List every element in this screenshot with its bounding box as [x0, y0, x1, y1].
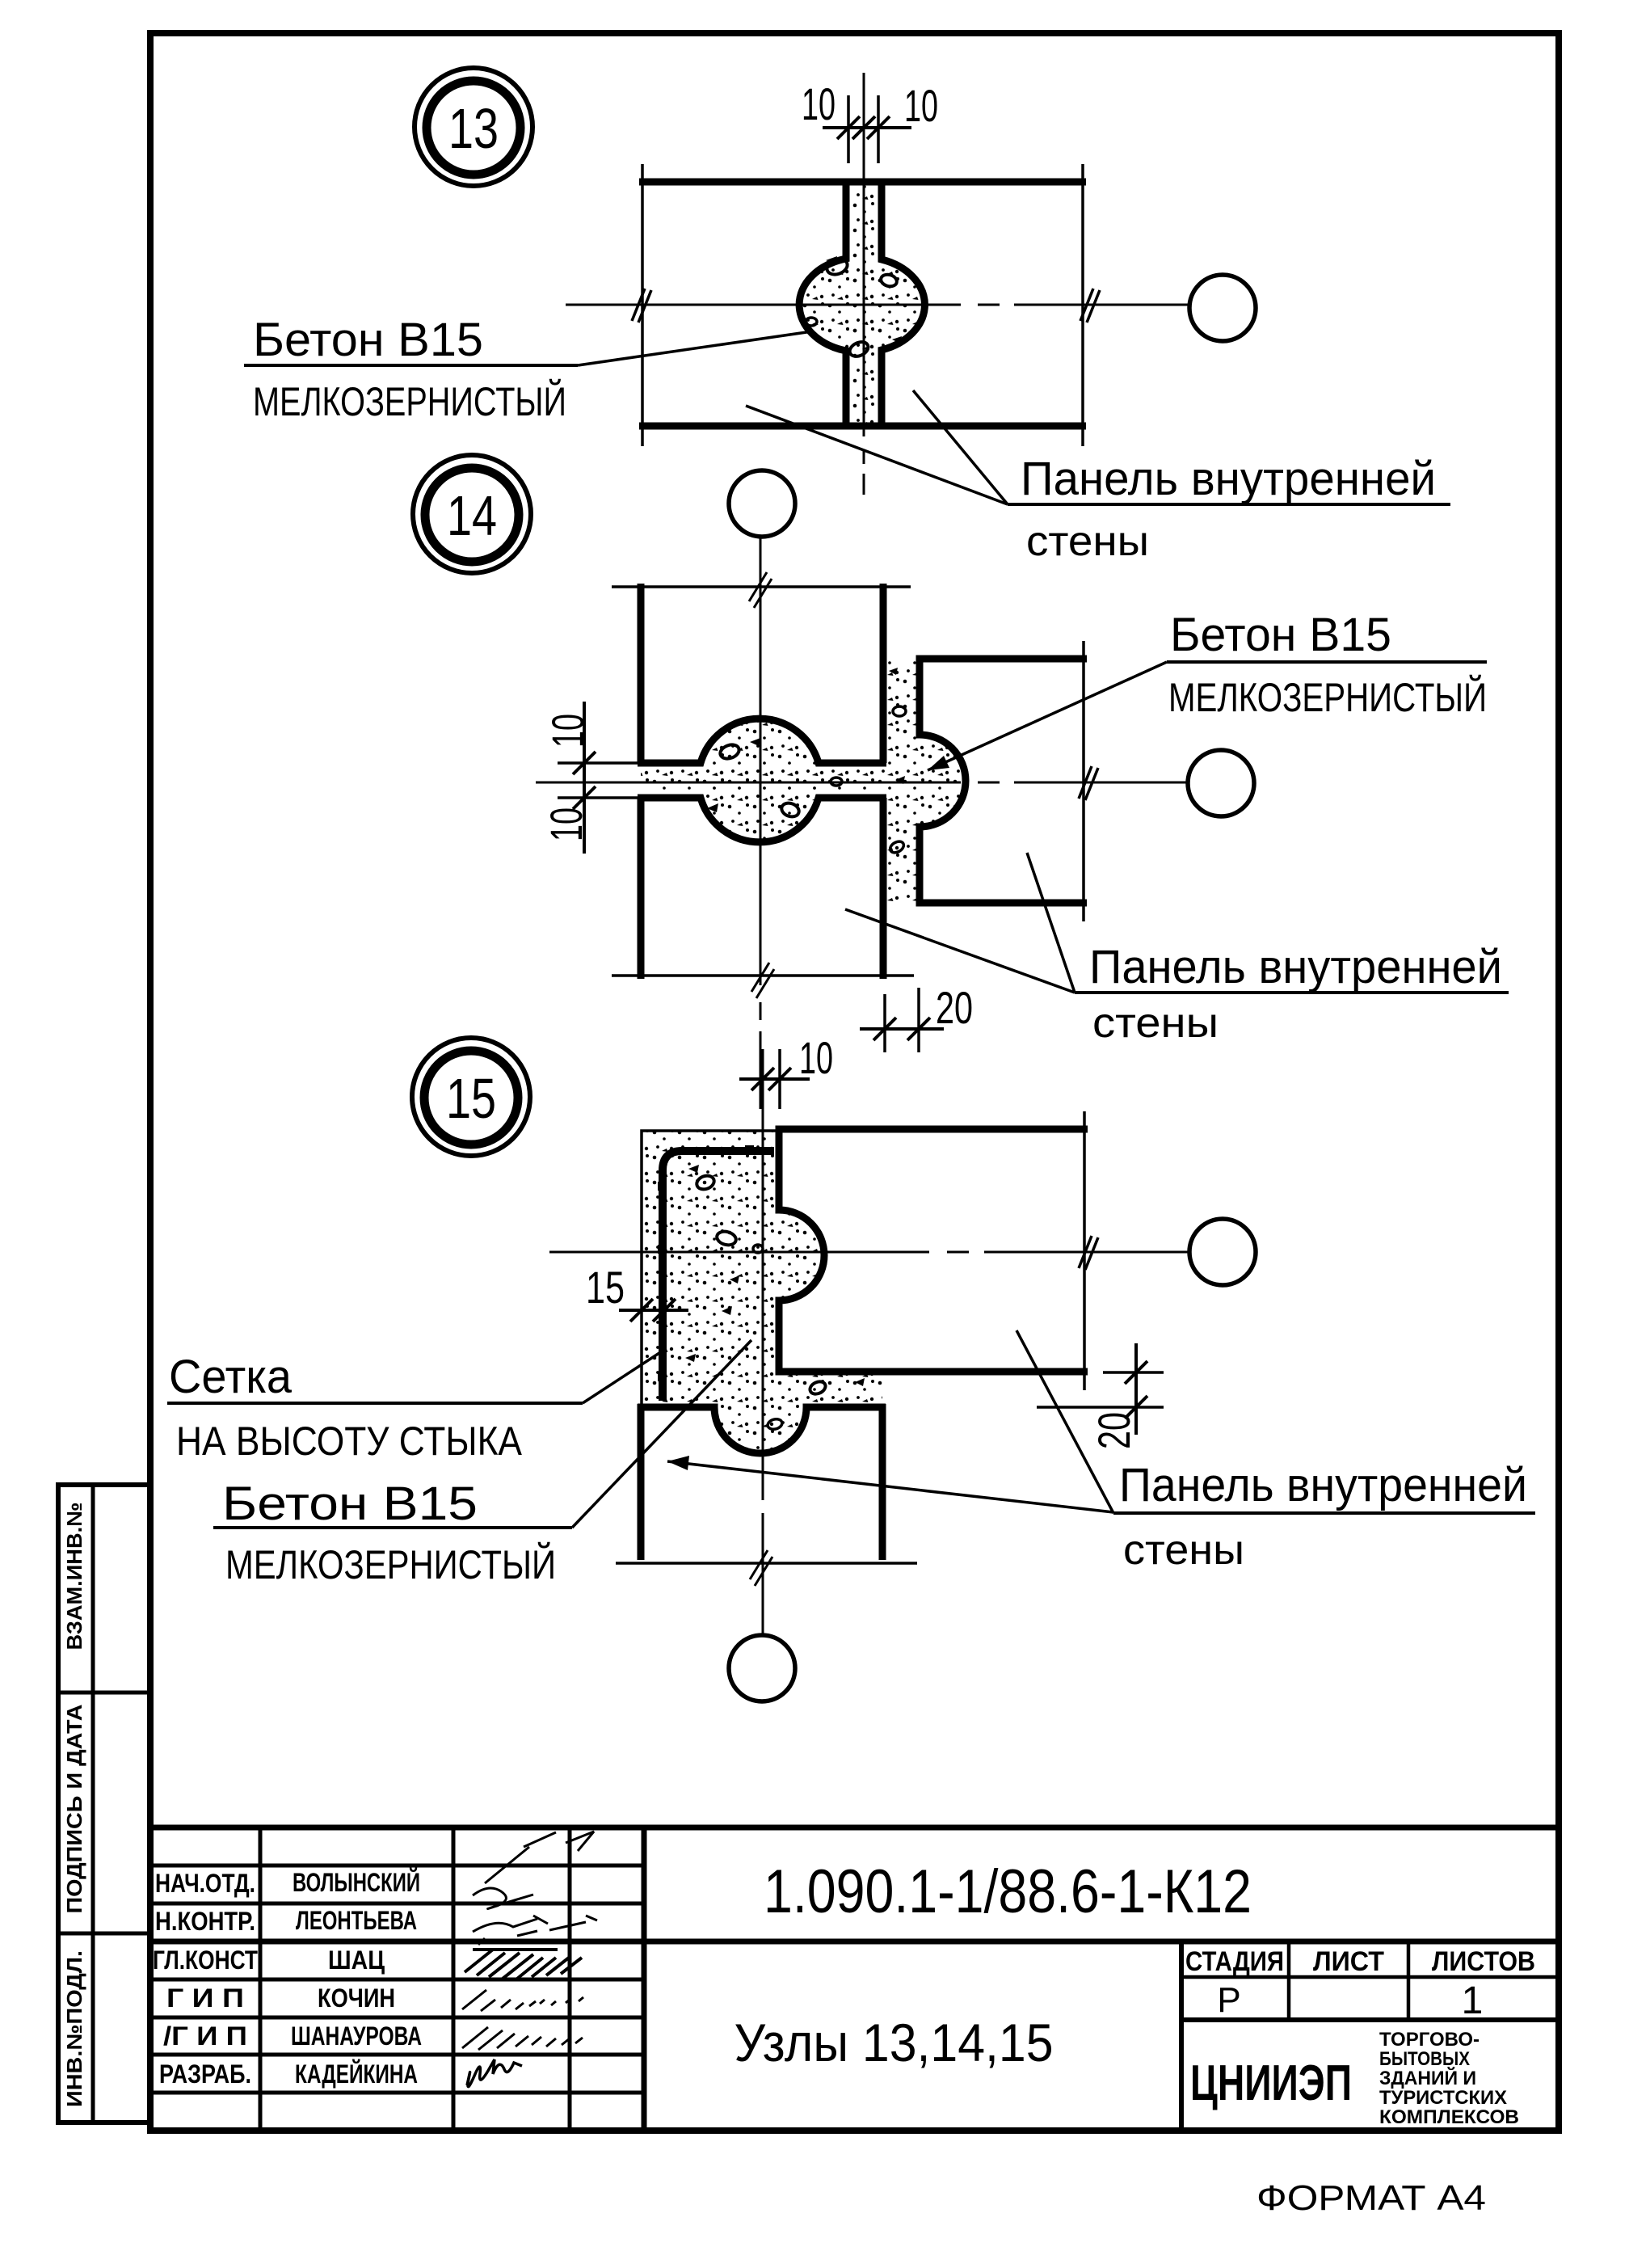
concrete fill of joint 15 (stipple)	[642, 1131, 882, 1453]
svg-text:1.090.1-1/88.6-1-К12: 1.090.1-1/88.6-1-К12	[764, 1857, 1252, 1926]
svg-text:15: 15	[586, 1262, 625, 1313]
svg-text:ЛЕОНТЬЕВА: ЛЕОНТЬЕВА	[296, 1906, 417, 1935]
svg-text:20: 20	[936, 982, 973, 1033]
svg-text:ФОРМАТ А4: ФОРМАТ А4	[1256, 2178, 1486, 2218]
label: Бетон В15 мелкозернистый (detail 14)	[928, 609, 1487, 770]
svg-text:стены: стены	[1123, 1527, 1244, 1574]
grid bubble right (detail 15)	[1189, 1219, 1256, 1285]
staff table verticals	[259, 1827, 263, 2131]
grid bubble bottom (detail 15)	[729, 1635, 795, 1701]
side strip boxes	[58, 1485, 150, 2123]
horizontal axis line (detail 14)	[536, 766, 1188, 800]
horizontal axis line (detail 15)	[549, 1236, 1189, 1270]
horizontal axis line (detail 13)	[566, 289, 1189, 322]
svg-text:ТОРГОВО-: ТОРГОВО-	[1379, 2029, 1480, 2051]
svg-text:стены: стены	[1026, 518, 1149, 565]
grid bubble right (detail 14)	[1188, 750, 1254, 816]
label: Панель внутренней стены (detail 15)	[667, 1330, 1535, 1574]
label: Панель внутренней стены (detail 14)	[845, 853, 1509, 1047]
dimension 10/10 left (detail 14)	[541, 702, 642, 854]
svg-text:Р: Р	[1217, 1980, 1240, 2020]
svg-text:стены: стены	[1092, 1000, 1219, 1047]
svg-text:Н.КОНТР.: Н.КОНТР.	[155, 1907, 255, 1936]
dimension 10/10 top (detail 13)	[802, 78, 938, 163]
svg-text:ИНВ.№ПОДЛ.: ИНВ.№ПОДЛ.	[62, 1950, 86, 2107]
svg-text:Бетон В15: Бетон В15	[1170, 609, 1391, 661]
svg-text:ЦНИИЭП: ЦНИИЭП	[1190, 2055, 1352, 2111]
svg-text:ШАНАУРОВА: ШАНАУРОВА	[291, 2021, 422, 2051]
svg-text:МЕЛКОЗЕРНИСТЫЙ: МЕЛКОЗЕРНИСТЫЙ	[1168, 674, 1487, 720]
svg-text:КАДЕЙКИНА: КАДЕЙКИНА	[295, 2059, 418, 2089]
right wall panel (detail 15)	[779, 1111, 1088, 1390]
dimension 15 (detail 15)	[586, 1262, 688, 1322]
svg-text:10: 10	[799, 1032, 833, 1083]
svg-text:Панель внутренней: Панель внутренней	[1089, 941, 1502, 993]
svg-text:КОМПЛЕКСОВ: КОМПЛЕКСОВ	[1379, 2106, 1519, 2128]
stadia list listov table	[1179, 1941, 1184, 2131]
signatures column scribbles	[462, 1832, 597, 2087]
svg-text:ПОДПИСЬ И ДАТА: ПОДПИСЬ И ДАТА	[62, 1704, 86, 1913]
grid bubble top (detail 14)	[729, 470, 795, 537]
vertical centerline of joint 13	[863, 73, 865, 495]
concrete fill of joint 14 (stipple)	[641, 660, 966, 903]
detail marker circle 15	[412, 1038, 530, 1156]
svg-text:ГЛ.КОНСТ: ГЛ.КОНСТ	[153, 1946, 258, 1975]
svg-text:БЫТОВЫХ: БЫТОВЫХ	[1379, 2048, 1470, 2070]
svg-text:Сетка: Сетка	[169, 1351, 293, 1403]
dimension 20 bottom right (detail 14)	[860, 982, 973, 1052]
reinforcing mesh line (detail 15)	[658, 1145, 774, 1401]
svg-text:Бетон В15: Бетон В15	[253, 314, 483, 366]
vertical axis line (detail 14)	[760, 537, 762, 1109]
dimension 10 bottom (detail 15 axis offset)	[739, 1032, 833, 1109]
detail marker circle 14	[413, 455, 531, 573]
staff table row lines	[150, 1864, 644, 1868]
svg-text:ВЗАМ.ИНВ.№: ВЗАМ.ИНВ.№	[62, 1503, 86, 1650]
right wall panel (detail 13)	[882, 164, 1083, 446]
vertical axis line (detail 15)	[750, 1049, 772, 1634]
grid bubble right (detail 13)	[1189, 275, 1256, 341]
svg-text:1: 1	[1462, 1979, 1484, 2022]
svg-text:РАЗРАБ.: РАЗРАБ.	[159, 2059, 251, 2089]
svg-text:10: 10	[802, 78, 836, 129]
svg-text:Панель внутренней: Панель внутренней	[1021, 453, 1436, 505]
svg-text:Бетон В15: Бетон В15	[222, 1478, 478, 1530]
label: Бетон В15 мелкозернистый (detail 13)	[244, 314, 812, 424]
svg-text:ТУРИСТСКИХ: ТУРИСТСКИХ	[1379, 2087, 1507, 2109]
svg-text:Узлы 13,14,15: Узлы 13,14,15	[735, 2013, 1054, 2072]
bottom wall panel (detail 15)	[616, 1404, 917, 1563]
detail marker circle 13	[415, 68, 532, 186]
right wall panel (detail 14)	[920, 641, 1087, 921]
svg-text:10: 10	[904, 80, 938, 131]
svg-text:15: 15	[446, 1067, 496, 1130]
label: Панель внутренней стены (detail 13)	[746, 390, 1450, 565]
svg-text:ЛИСТОВ: ЛИСТОВ	[1432, 1946, 1535, 1977]
svg-text:14: 14	[447, 484, 497, 547]
concrete outer boundary (detail 15)	[642, 1131, 778, 1407]
label: Бетон В15 мелкозернистый (detail 15)	[213, 1340, 751, 1587]
svg-text:ШАЦ: ШАЦ	[328, 1946, 385, 1975]
label: Сетка на высоту стыка (detail 15)	[167, 1350, 664, 1464]
svg-text:МЕЛКОЗЕРНИСТЫЙ: МЕЛКОЗЕРНИСТЫЙ	[225, 1541, 556, 1587]
svg-text:КОЧИН: КОЧИН	[318, 1983, 395, 2013]
title block outer lines	[150, 1825, 1559, 1831]
svg-text:/Г И П: /Г И П	[163, 2021, 247, 2051]
svg-text:СТАДИЯ: СТАДИЯ	[1185, 1946, 1284, 1977]
drawing frame border	[150, 33, 1559, 2131]
lower-left wall panel (detail 14)	[612, 798, 914, 998]
svg-text:Панель внутренней: Панель внутренней	[1119, 1459, 1527, 1511]
svg-text:НАЧ.ОТД.: НАЧ.ОТД.	[155, 1869, 255, 1898]
dimension 20 right (detail 15)	[1037, 1343, 1164, 1449]
svg-text:НА ВЫСОТУ СТЫКА: НА ВЫСОТУ СТЫКА	[176, 1419, 523, 1464]
svg-text:20: 20	[1088, 1412, 1139, 1449]
svg-text:13: 13	[448, 97, 499, 160]
svg-text:ЗДАНИЙ И: ЗДАНИЙ И	[1379, 2067, 1476, 2089]
svg-text:МЕЛКОЗЕРНИСТЫЙ: МЕЛКОЗЕРНИСТЫЙ	[253, 378, 566, 424]
svg-text:ВОЛЫНСКИЙ: ВОЛЫНСКИЙ	[293, 1868, 420, 1897]
svg-text:ЛИСТ: ЛИСТ	[1313, 1946, 1384, 1977]
concrete fill of joint 13 (stipple)	[799, 182, 925, 426]
upper-left wall panel (detail 14)	[612, 572, 911, 763]
svg-text:Г И П: Г И П	[166, 1983, 244, 2013]
left wall panel (detail 13)	[639, 164, 1086, 446]
